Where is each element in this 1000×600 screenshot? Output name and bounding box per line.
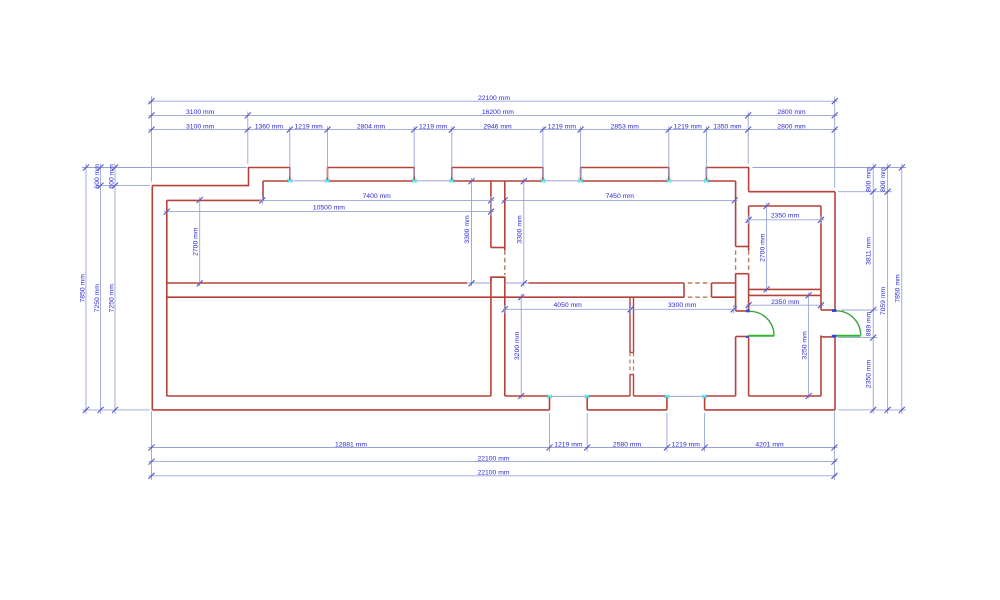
bottom window 2 jambs	[667, 396, 705, 410]
bottom window 1 jambs	[550, 396, 588, 410]
svg-text:800 mm: 800 mm	[880, 167, 887, 192]
dim row4 ticks	[149, 445, 838, 451]
dim 7400 ext stubs	[262, 196, 491, 216]
svg-text:4201 mm: 4201 mm	[755, 441, 784, 448]
right dim line A	[872, 164, 874, 414]
svg-text:3100 mm: 3100 mm	[186, 123, 215, 130]
svg-text:600 mm: 600 mm	[109, 164, 116, 189]
dim 3300 room2 ticks	[521, 178, 527, 286]
right dim B ticks	[885, 165, 891, 413]
right dim A texts	[866, 167, 873, 388]
dim 2700 TR ticks	[764, 203, 770, 292]
bottom window glass lines	[550, 395, 705, 397]
dim row2 texts	[186, 109, 806, 116]
svg-text:4050 mm: 4050 mm	[554, 302, 583, 309]
top wall right segment outer face	[749, 191, 835, 193]
svg-text:2580 mm: 2580 mm	[613, 441, 642, 448]
svg-text:600 mm: 600 mm	[94, 164, 101, 189]
dim 10500 ticks	[164, 209, 494, 215]
top wall left segment outer face	[152, 168, 289, 186]
svg-text:2700 mm: 2700 mm	[759, 233, 766, 262]
window bay pier 5	[706, 168, 748, 192]
svg-text:7400 mm: 7400 mm	[363, 193, 392, 200]
left dim C ticks	[112, 165, 118, 413]
window bay pier 3	[452, 168, 543, 182]
svg-text:7850 mm: 7850 mm	[894, 274, 901, 303]
right dim B texts	[880, 167, 887, 315]
svg-text:3811 mm: 3811 mm	[866, 237, 873, 265]
door2 leaf	[835, 335, 861, 337]
bottom window cyan markers	[547, 395, 707, 398]
left dim A ticks	[83, 165, 89, 413]
dim row1 ticks	[149, 98, 838, 104]
svg-text:1219 mm: 1219 mm	[295, 123, 324, 130]
svg-text:1219 mm: 1219 mm	[548, 123, 577, 130]
right dim line B	[887, 164, 889, 414]
dim row5 line	[148, 461, 837, 463]
interior wall B left face	[735, 181, 737, 396]
svg-text:7250 mm: 7250 mm	[109, 284, 116, 313]
dim row4 texts	[335, 441, 784, 448]
right dim C ticks	[899, 165, 905, 413]
wall A jamb bump over mid wall	[491, 277, 505, 283]
wall A opening bottom jamb	[491, 276, 505, 278]
right extension lines	[753, 168, 907, 410]
building right exterior wall (door gap)	[834, 192, 836, 410]
svg-text:3200 mm: 3200 mm	[514, 331, 521, 360]
svg-text:7850 mm: 7850 mm	[80, 274, 87, 303]
svg-text:3100 mm: 3100 mm	[186, 109, 215, 116]
left interior face wall	[166, 200, 168, 396]
door1 swing arc	[750, 311, 774, 335]
svg-text:7059 mm: 7059 mm	[880, 287, 887, 316]
dim 3200 ticks	[518, 294, 524, 399]
dim 4050-3300 ticks	[502, 306, 737, 312]
bottom wall inner face segments	[167, 395, 821, 397]
window bay pier 2	[328, 168, 415, 182]
left dim C texts	[109, 164, 116, 313]
dim 3200 line	[520, 294, 522, 399]
svg-text:1219 mm: 1219 mm	[419, 123, 448, 130]
dim row3 line	[148, 129, 837, 131]
room1 top inner face seg a	[263, 180, 290, 182]
right interior face wall (door gap)	[820, 206, 822, 396]
door2 opening jambs	[821, 310, 835, 337]
svg-text:2800 mm: 2800 mm	[777, 123, 806, 130]
svg-text:12881 mm: 12881 mm	[335, 441, 367, 448]
svg-text:1219 mm: 1219 mm	[554, 441, 583, 448]
left dim line A	[85, 164, 87, 414]
svg-text:2800 mm: 2800 mm	[777, 109, 806, 116]
wall B opening sill	[736, 273, 749, 275]
wall A opening dashed line	[504, 250, 506, 275]
dim row5 ticks	[149, 459, 838, 465]
wall B opening top jamb	[736, 246, 749, 248]
mid wall opening jambs	[684, 283, 712, 297]
dim 7400 line	[259, 199, 494, 201]
dim row 22100 top	[148, 100, 837, 102]
dim 7450 line	[502, 199, 738, 201]
dim 2700 TR room line	[766, 203, 768, 293]
thin partition dashed opening	[630, 353, 634, 375]
wall A opening top jamb	[491, 247, 505, 249]
svg-text:7450 mm: 7450 mm	[606, 193, 635, 200]
dim 2350 TR ext stubs	[749, 215, 821, 224]
svg-text:2853 mm: 2853 mm	[611, 123, 640, 130]
dim row3 ticks	[149, 127, 838, 133]
svg-text:3250 mm: 3250 mm	[801, 331, 808, 360]
svg-text:22100 mm: 22100 mm	[477, 455, 509, 462]
top-right room bottom face	[749, 288, 821, 290]
left dim line B	[100, 164, 102, 414]
left dim B ticks	[98, 165, 104, 413]
dim 2350 TR room line	[746, 219, 824, 221]
building left exterior wall	[151, 186, 153, 410]
dim 7400 ticks	[259, 197, 494, 203]
interior wall A left face	[490, 181, 492, 396]
dim row4 line	[148, 447, 837, 449]
dim 3250 line	[808, 292, 810, 398]
dim row6 ticks	[149, 473, 838, 479]
door1 top jamb	[736, 310, 749, 312]
room2 top inner face seg d	[581, 180, 669, 182]
bottom extension lines	[152, 411, 835, 480]
svg-text:3300 mm: 3300 mm	[668, 302, 697, 309]
door2 swing arc	[836, 311, 861, 336]
wall B opening dashed lines	[736, 250, 749, 273]
right dim line C	[901, 164, 903, 414]
dim 4050-3300 ext stubs	[505, 305, 734, 314]
svg-text:2700 mm: 2700 mm	[193, 227, 200, 256]
svg-text:1219 mm: 1219 mm	[672, 441, 701, 448]
left dim B texts	[94, 164, 101, 313]
interior wall B right face	[748, 206, 750, 396]
dim row2 ticks	[149, 112, 838, 118]
window bay pier 4	[581, 168, 669, 182]
dim 2350 lower line	[746, 304, 824, 306]
svg-text:22100 mm: 22100 mm	[478, 95, 510, 102]
room1 top inner face seg b	[328, 180, 415, 182]
thin partition wall faces	[630, 297, 634, 396]
mid wall opening dashed lines	[688, 283, 709, 297]
dim 3300 room1 ticks	[469, 178, 475, 286]
mid wall top face segments	[167, 282, 736, 284]
svg-text:889 mm: 889 mm	[866, 311, 873, 336]
dim row3 texts	[186, 123, 806, 130]
svg-text:2350 mm: 2350 mm	[771, 213, 800, 220]
top wall left inner face	[167, 181, 263, 200]
svg-text:2350 mm: 2350 mm	[771, 299, 800, 306]
right dim A ticks	[870, 165, 876, 413]
dim 3250 ticks	[806, 292, 812, 399]
svg-text:16200 mm: 16200 mm	[482, 109, 514, 116]
svg-text:10500 mm: 10500 mm	[313, 204, 345, 211]
building bottom exterior wall (with window gaps)	[152, 409, 835, 411]
left extension lines	[82, 168, 247, 410]
top window glass lines	[290, 180, 707, 182]
svg-text:1350 mm: 1350 mm	[713, 123, 742, 130]
dim 10500 line	[164, 211, 494, 213]
svg-text:3300 mm: 3300 mm	[517, 215, 524, 244]
dim 2350 lower ticks	[746, 302, 824, 308]
svg-text:1219 mm: 1219 mm	[674, 123, 703, 130]
mid wall top face extension-covered segs	[467, 282, 528, 284]
svg-text:22100 mm: 22100 mm	[477, 470, 509, 477]
mid wall bottom face right stub	[712, 296, 736, 298]
svg-text:2804 mm: 2804 mm	[357, 123, 386, 130]
dim 3300 room1 line	[471, 178, 473, 286]
svg-text:1360 mm: 1360 mm	[255, 123, 284, 130]
mid wall bottom face	[167, 296, 684, 298]
dim 2350 TR ticks	[746, 217, 824, 223]
door1 leaf	[749, 335, 775, 337]
svg-text:3300 mm: 3300 mm	[464, 215, 471, 244]
dim 2700 room1 line	[199, 197, 201, 286]
svg-text:2350 mm: 2350 mm	[866, 359, 873, 388]
top extension lines	[152, 96, 835, 188]
svg-text:800 mm: 800 mm	[866, 167, 873, 192]
interior wall A right face	[504, 181, 506, 396]
svg-text:7250 mm: 7250 mm	[94, 284, 101, 313]
wall under top-right room bottom face	[749, 294, 821, 296]
svg-text:2946 mm: 2946 mm	[483, 123, 512, 130]
left dim line C	[114, 164, 116, 414]
dim row2 line	[148, 114, 837, 116]
dim 4050-3300 line	[503, 308, 738, 310]
door1 jamb markers	[746, 309, 750, 338]
door2 jamb markers	[832, 309, 837, 337]
dim 7450 ticks	[502, 197, 738, 203]
room1/room2 top inner face seg c	[452, 180, 543, 182]
dim 2700 room1 ticks	[197, 197, 203, 286]
dim 3300 room2 line	[523, 178, 525, 286]
top window cyan markers	[287, 179, 708, 182]
door1 bottom jamb	[736, 336, 749, 338]
room2 top inner face seg e	[706, 180, 735, 182]
dim row6 line	[148, 475, 837, 477]
top-right room top face	[749, 205, 821, 207]
